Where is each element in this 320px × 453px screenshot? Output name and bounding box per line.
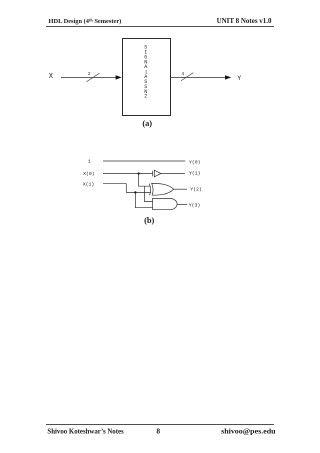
junction dot X(1) [134, 191, 136, 193]
wire 1 to Y(0) [103, 160, 185, 162]
svg-text:1: 1 [88, 159, 91, 165]
svg-text:UNIT 8 Notes v1.0: UNIT 8 Notes v1.0 [217, 17, 272, 25]
arrowhead into block [116, 75, 122, 79]
svg-text:2: 2 [88, 71, 91, 77]
svg-text:8: 8 [156, 427, 160, 436]
wire X(0) branch down to XOR top input [139, 174, 151, 187]
svg-text:(a): (a) [142, 119, 152, 128]
bus slash input [87, 73, 100, 82]
svg-text:HDL Design (4th Semester): HDL Design (4th Semester) [49, 17, 122, 25]
wire X(1) branch to AND bottom input [135, 192, 152, 207]
svg-text:Shivoo Koteshwar’s Notes: Shivoo Koteshwar’s Notes [47, 428, 123, 436]
wire XOR out to Y(2) [174, 188, 187, 190]
wire X(0) to buffer [103, 173, 152, 175]
xor gate U3 [149, 183, 173, 195]
header rule [46, 26, 274, 28]
svg-text:Y(2): Y(2) [190, 186, 202, 192]
buffer U2 [153, 170, 161, 177]
footer rule [46, 424, 274, 426]
svg-text:4: 4 [181, 71, 184, 77]
wire branch to AND top input [145, 186, 153, 201]
wire AND out to Y(3) [177, 204, 187, 206]
svg-text:A: A [144, 64, 147, 70]
wire buffer out [161, 172, 185, 174]
svg-text:shivoo@pes.edu: shivoo@pes.edu [221, 426, 276, 435]
wire X input [61, 76, 117, 78]
svg-text:2: 2 [144, 94, 147, 100]
bus slash output [181, 73, 194, 81]
svg-text:X(0): X(0) [83, 171, 95, 177]
wire X(1) to XOR bottom input [103, 184, 151, 193]
arrowhead output [225, 75, 231, 79]
svg-text:(b): (b) [144, 216, 154, 225]
block U1 SIGNAL ASSN 2 [123, 39, 171, 116]
svg-text:Y(1): Y(1) [189, 171, 201, 177]
svg-text:Y: Y [237, 75, 241, 82]
wire Y output [171, 76, 226, 78]
svg-text:X(1): X(1) [83, 181, 95, 187]
output labels [189, 159, 202, 208]
svg-text:Y(3): Y(3) [189, 203, 201, 209]
block label SIGNAL ASSN 2 (vertical) [145, 70, 147, 74]
and gate U4 [153, 198, 178, 209]
junction dot X(0) [138, 172, 140, 174]
svg-text:Y(0): Y(0) [189, 159, 201, 165]
